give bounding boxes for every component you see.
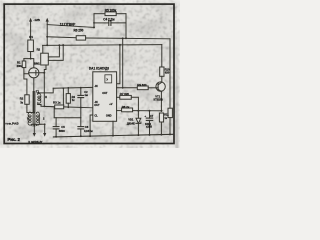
wire V2 from line A down to op-amp pin (122, 38, 124, 87)
svg-text:КТ315В: КТ315В (154, 98, 163, 102)
svg-text:OUT: OUT (94, 103, 100, 107)
wire: line B left drop to X1 box (42, 45, 44, 53)
svg-text:R9 620: R9 620 (137, 83, 147, 87)
node bottom-left (33, 112, 35, 114)
resistor R5 100k (94, 12, 126, 16)
svg-text:-IN: -IN (94, 100, 97, 104)
op-amp gnd drop right (112, 121, 114, 135)
svg-text:С4 2,2м: С4 2,2м (103, 18, 115, 22)
capacitor C7 (polar) (146, 111, 152, 135)
shield arrow left (33, 124, 35, 133)
resistor R7 620 (117, 95, 139, 110)
resistor R10 620 (vertical) (160, 67, 164, 82)
svg-text:R2: R2 (37, 48, 41, 52)
svg-text:R10: R10 (165, 67, 170, 71)
resistor R9 620 (117, 86, 156, 90)
rail (to -IN): y=88 (53, 86, 93, 89)
svg-text:200к: 200к (17, 64, 23, 68)
supply arrow up (right, -12V) (46, 18, 49, 46)
page edge shadow right (175, 28, 178, 148)
svg-text:-12В: -12В (33, 18, 40, 22)
svg-text:тов.РАБ: тов.РАБ (5, 121, 19, 125)
svg-text:R7 620: R7 620 (120, 92, 130, 96)
microphone BM1 (29, 68, 45, 113)
svg-text:DA1 К140УД8: DA1 К140УД8 (89, 67, 109, 71)
winding I (left) (28, 112, 31, 126)
resistor R8 2k (117, 108, 163, 112)
svg-text:OUT: OUT (102, 91, 108, 95)
node feedback right leg on line A (125, 37, 127, 39)
wire: elbow into R3 row (44, 105, 54, 107)
transistor VT1 KT315 (156, 82, 165, 112)
capacitor C2 (78, 87, 84, 118)
resistor R11 (vertical, emitter) (159, 113, 163, 135)
node V1 on line B (119, 44, 121, 46)
node: supply tap on line A (46, 36, 48, 38)
svg-text:620: 620 (165, 71, 170, 75)
core lines (32, 92, 34, 127)
svg-text:CL: CL (94, 113, 98, 117)
svg-text:R11: R11 (164, 113, 169, 117)
svg-text:1м: 1м (85, 93, 88, 97)
wire: feedback left leg (93, 14, 95, 28)
outer frame of figure (4, 4, 174, 143)
svg-text:ВМ1: ВМ1 (34, 62, 40, 66)
svg-text:К ЭКРАНУ: К ЭКРАНУ (28, 140, 42, 144)
resistor R3 1k (horizontal) (55, 105, 93, 109)
svg-text:R6 200: R6 200 (74, 28, 84, 32)
svg-text:-IN: -IN (94, 84, 97, 88)
resistor R6 200 (76, 36, 85, 40)
svg-text:VD1: VD1 (128, 118, 134, 122)
wire: jog to mic top (24, 59, 34, 68)
wire: line B right drop to R10/collector (161, 45, 163, 67)
wire: line-1 from supply to feedback leg (47, 25, 94, 28)
svg-text:12 ГЛ’ВКР: 12 ГЛ’ВКР (60, 23, 76, 27)
wire: line A continues right (86, 37, 170, 40)
wire L3 row (54, 108, 81, 118)
svg-text:R1: R1 (29, 35, 33, 39)
winding II top wire to rail (38, 88, 54, 93)
winding III (bottom right) (36, 112, 39, 126)
ground bus (53, 134, 172, 137)
wire V1 down to op-amp pin (117, 45, 120, 84)
node above microphone (30, 58, 32, 60)
node mic-line crossing on x=43.6 handled above (43, 106, 45, 108)
capacitor C5 6800 (53, 118, 59, 137)
node V2 on OUT wire (122, 87, 124, 89)
transformer T1 (28, 88, 55, 136)
node: supply tap on line B (46, 44, 48, 46)
wire: line A drop to output terminal (169, 39, 171, 108)
winding II bottom wire (38, 105, 55, 107)
svg-text:Д814Б: Д814Б (127, 121, 135, 125)
wire: mic-right vertical down (44, 70, 46, 107)
svg-text:6800: 6800 (59, 129, 65, 133)
wire from circle-left down to R2 (24, 74, 27, 95)
winding bottoms bar (31, 123, 41, 125)
svg-text:+V: +V (109, 102, 112, 106)
wire: line A (supply rail with R6) (47, 36, 76, 39)
node R3 stub on rail (63, 87, 65, 89)
node V2 on line A (122, 37, 124, 39)
wire: R3 right-end stub up to rail (62, 88, 64, 105)
svg-text:II: II (45, 95, 47, 99)
svg-text:GND: GND (106, 114, 112, 118)
node mic right (43, 72, 45, 74)
svg-text:х16В: х16В (146, 125, 152, 129)
node at feedback left leg (93, 26, 95, 28)
wire: line B (43, 44, 162, 47)
capacitor C4 2.2u (93, 20, 126, 25)
resistor R4 1k (vertical) (66, 87, 70, 108)
supply arrow up (left, -12V) (29, 18, 32, 40)
shield arrow right (41, 124, 45, 133)
svg-text:Т1: Т1 (36, 89, 40, 93)
paper background (0, 0, 180, 148)
svg-text:R5 100к: R5 100к (105, 8, 117, 12)
op-amp gnd drop left (90, 115, 93, 136)
zener diode VD1 (136, 111, 141, 136)
resistor R2 3k (25, 95, 34, 113)
output terminal box on right edge (168, 108, 172, 134)
svg-text:R3 1к: R3 1к (53, 101, 61, 105)
resistor R1 200k (left vertical) (22, 59, 29, 74)
component X1 (4-pin box) (41, 44, 64, 69)
wire: feedback right leg (125, 14, 127, 39)
svg-text:0,047м: 0,047м (84, 129, 93, 133)
capacitor C6 0.047 (78, 118, 84, 137)
svg-text:Рис. 2: Рис. 2 (7, 137, 20, 142)
winding II (top right) (38, 93, 41, 105)
svg-text:R8 2к: R8 2к (122, 105, 130, 109)
resistor R1 (top left vertical) (28, 40, 34, 59)
op-amp DA1 box (93, 72, 117, 122)
